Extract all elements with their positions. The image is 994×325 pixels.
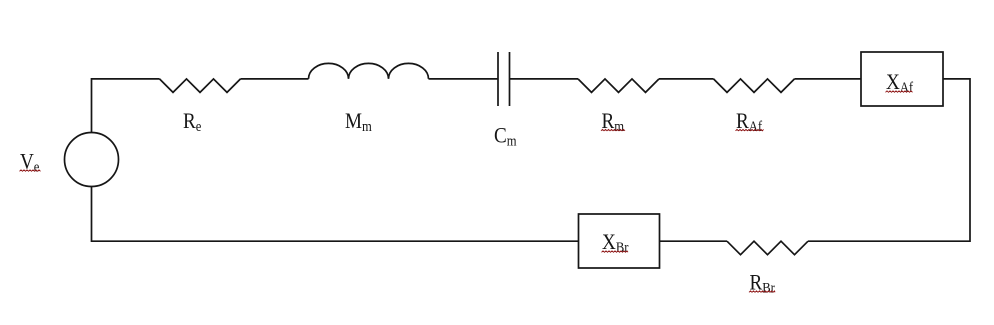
wire R_m to R_Af — [659, 78, 714, 80]
label X_Br — [602, 231, 629, 255]
resistor R_m — [578, 79, 659, 93]
svg-text:Re: Re — [183, 110, 201, 134]
label R_e — [183, 110, 201, 134]
wire X_Br box to R_Br — [660, 240, 728, 242]
block X_Br — [579, 214, 660, 268]
block X_Af — [861, 52, 943, 106]
resistor R_Br — [727, 241, 808, 255]
wire M_m to C_m — [429, 78, 499, 80]
squiggle under V_e — [20, 170, 41, 171]
capacitor C_m plate left — [497, 52, 499, 106]
wire R_e to M_m — [241, 78, 309, 80]
svg-text:Cm: Cm — [494, 124, 517, 148]
resistor R_Af — [714, 79, 795, 93]
wire C_m to R_m — [510, 78, 579, 80]
wire X_Af box to right rail down to bottom — [808, 79, 970, 241]
squiggle under R_Af — [736, 129, 764, 130]
label V_e — [20, 150, 39, 174]
capacitor C_m plate right — [509, 52, 511, 106]
squiggle under X_Br — [602, 251, 629, 252]
wire source bottom to bottom rail — [92, 187, 579, 242]
voltage source V_e — [65, 133, 119, 187]
label M_m — [345, 110, 372, 134]
svg-text:RBr: RBr — [750, 271, 776, 295]
squiggle under R_m — [601, 129, 625, 130]
label R_Br — [750, 271, 776, 295]
svg-text:Mm: Mm — [345, 110, 372, 134]
wire R_Af to X_Af box — [795, 78, 862, 80]
label X_Af — [886, 71, 914, 95]
inductor M_m — [309, 63, 429, 79]
wire top-left corner: from source up and right to R_e — [92, 79, 160, 133]
label R_m — [602, 110, 625, 134]
resistor R_e — [160, 79, 241, 93]
label R_Af — [736, 110, 763, 134]
squiggle under X_Af — [886, 91, 913, 92]
label C_m — [494, 124, 517, 148]
squiggle under R_Br — [749, 291, 775, 292]
